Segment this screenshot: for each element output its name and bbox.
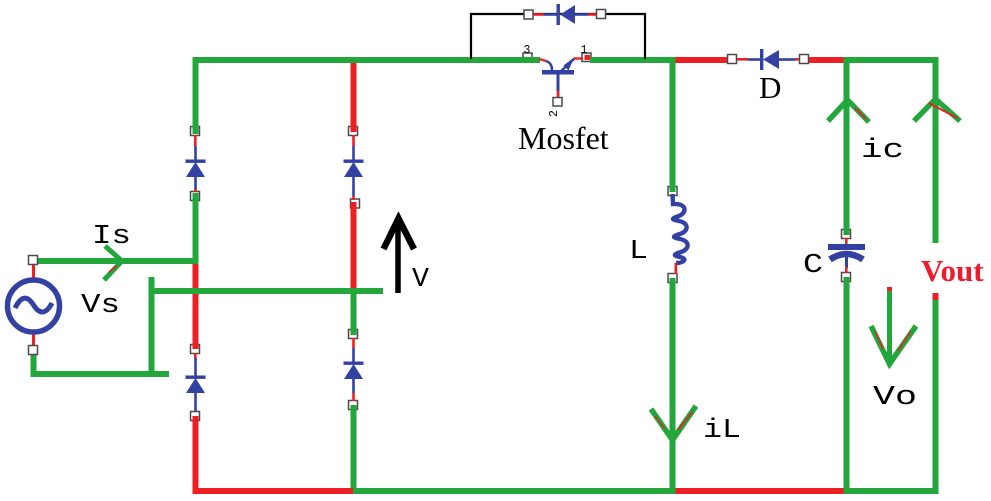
diode D3 upper-right bridge	[344, 135, 364, 200]
port mosfet pin3	[523, 44, 532, 62]
svg-text:2: 2	[548, 110, 561, 117]
port inductor bottom	[668, 274, 677, 283]
svg-text:iL: iL	[703, 416, 741, 446]
wire top bus right of mosfet green	[590, 57, 677, 63]
arrow Vo	[871, 287, 916, 364]
wire left bridge leg lower red	[193, 416, 199, 494]
port capacitor top	[842, 230, 851, 239]
wire inductor branch lower green	[670, 278, 676, 494]
wire output branch red tip	[933, 293, 939, 300]
wire bottom bus red left	[193, 488, 354, 494]
diode D1 upper-left bridge	[186, 135, 206, 192]
wire capacitor branch upper green	[844, 57, 850, 235]
svg-text:L: L	[629, 237, 648, 267]
wire Is feeder green	[31, 258, 198, 264]
port bridge D1 top	[191, 127, 200, 136]
svg-text:D: D	[759, 70, 781, 105]
label Vout	[921, 253, 984, 288]
port bridge D2 bottom	[191, 412, 200, 421]
port bridge D2 top	[191, 345, 200, 354]
wire snubber loop black	[471, 14, 645, 59]
diode D5 snubber	[533, 4, 597, 25]
diode D	[737, 49, 800, 70]
arrow Is	[104, 246, 122, 280]
svg-text:Mosfet: Mosfet	[518, 120, 609, 156]
port bridge D4 bottom	[349, 401, 358, 410]
wire mid return green horizontal	[149, 288, 384, 294]
wire right bridge leg mid green	[351, 290, 357, 335]
wire right bridge leg lower green	[351, 405, 357, 494]
svg-text:Vs: Vs	[81, 291, 120, 321]
svg-text:3: 3	[524, 44, 531, 57]
port bridge D1 bottom	[191, 192, 200, 201]
arrow iL	[651, 406, 696, 440]
port source plus	[29, 256, 38, 265]
label L	[629, 237, 648, 267]
wire output branch lower green	[933, 300, 939, 494]
arrow ic	[828, 100, 869, 122]
wire top bus right green segment	[846, 57, 938, 63]
port source minus	[29, 346, 38, 355]
wire bottom bus green right	[846, 488, 939, 494]
wire left bridge leg mid red	[193, 264, 199, 349]
label Mosfet	[518, 120, 609, 156]
wire inductor branch upper green	[670, 57, 676, 192]
port bridge D3 top	[349, 127, 358, 136]
wire source bottom green	[31, 355, 170, 377]
wire bottom bus green mid	[353, 488, 675, 494]
port snubber diode right	[597, 10, 606, 19]
wire mid return green vertical riser	[149, 277, 155, 377]
port mosfet pin1	[581, 44, 592, 62]
inductor L	[673, 194, 688, 274]
diode D4 lower-right bridge	[344, 338, 364, 401]
port snubber diode left	[524, 10, 533, 19]
label Vo	[873, 383, 917, 413]
wire bottom bus red right	[675, 488, 846, 494]
port inductor top	[668, 187, 677, 196]
wire right bridge leg mid red	[351, 202, 357, 290]
wire right bridge leg upper red	[351, 63, 357, 132]
port capacitor bottom	[842, 273, 851, 282]
wire left bridge leg upper green	[193, 57, 199, 134]
port bridge D3 bottom	[351, 199, 360, 208]
label C	[803, 251, 823, 281]
port diode D left	[728, 55, 737, 64]
source Vs AC symbol	[8, 280, 60, 332]
wire output branch upper green	[933, 57, 939, 243]
transistor Mosfet symbol	[539, 57, 583, 98]
wire source top red stub	[32, 265, 35, 278]
port diode D right	[800, 55, 809, 64]
label Is	[92, 222, 131, 252]
svg-text:ic: ic	[861, 136, 904, 166]
svg-text:Is: Is	[92, 222, 131, 252]
label V	[412, 265, 430, 295]
wire capacitor branch lower green	[844, 277, 850, 494]
svg-text:Vo: Vo	[873, 383, 917, 413]
label iL	[703, 416, 741, 446]
wire top bus red to diode D	[675, 57, 731, 63]
wire source bottom red stub	[32, 334, 35, 346]
capacitor C	[828, 238, 865, 273]
diode D2 lower-left bridge	[186, 353, 206, 412]
svg-text:Vout: Vout	[921, 253, 984, 288]
wire left bridge leg mid green	[193, 193, 199, 264]
port mosfet pin2	[548, 98, 562, 118]
svg-text:C: C	[803, 251, 823, 281]
arrow V black	[384, 219, 415, 294]
wire top bus red after diode D	[806, 57, 848, 63]
label D	[759, 70, 781, 105]
label ic	[861, 136, 904, 166]
svg-text:V: V	[412, 265, 430, 295]
label Vs	[81, 291, 120, 321]
arrow Vout up	[914, 99, 960, 121]
svg-text:1: 1	[581, 44, 588, 57]
wire top bus left green segment	[193, 57, 540, 63]
port bridge D4 top	[349, 330, 358, 339]
